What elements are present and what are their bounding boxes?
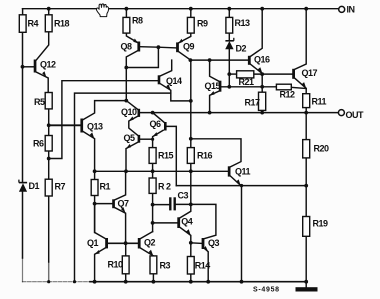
svg-text:D1: D1 — [29, 181, 40, 191]
svg-text:Q10: Q10 — [121, 107, 137, 117]
wire R21 left lead — [229, 73, 236, 75]
wire Q3 emitter to rail — [204, 248, 208, 281]
svg-text:IN: IN — [347, 4, 355, 14]
junction Q5 base / Q6 emitter — [151, 138, 154, 141]
capacitor C3 — [170, 197, 174, 210]
resistor R16 — [187, 148, 194, 164]
transistor Q14 — [158, 75, 161, 84]
junction Q11 collector wire at R16 top — [189, 137, 193, 141]
wire R14 bottom to rail — [190, 274, 192, 282]
junction Q6 branch on output bus — [151, 111, 155, 115]
resistor R10 — [122, 256, 129, 274]
junction R9 top at supply rail — [189, 7, 193, 11]
resistor R14 — [187, 257, 194, 275]
wire Q4 emitter down to Q3 base node — [180, 228, 191, 243]
wire Q16 collector riser to top rail — [251, 9, 263, 57]
svg-text:Q17: Q17 — [302, 68, 318, 78]
transistor Q16 — [248, 56, 251, 65]
resistor R4 — [19, 15, 26, 33]
svg-text:Q11: Q11 — [235, 167, 251, 177]
wire Q6 emitter down to R15, Q5 base tap — [153, 130, 164, 147]
svg-text:R3: R3 — [160, 261, 171, 271]
wire R21 right to Q17 base — [254, 73, 292, 75]
wire R8 top at rail / R8 bottom to Q8 emitter — [126, 33, 137, 42]
junction Q16 emitter / R21 right / Q17 base — [260, 72, 264, 76]
svg-text:C3: C3 — [178, 191, 189, 201]
svg-text:R6: R6 — [33, 139, 44, 149]
junction R6/R7 node — [47, 157, 51, 161]
wire R9 top lead — [190, 9, 192, 18]
svg-text:OUT: OUT — [346, 110, 365, 120]
resistor R19 — [303, 217, 310, 237]
wire R2 bottom to C3 node, down to Q2 collector — [152, 193, 154, 231]
junction R16 bottom on Q11 base wire — [189, 169, 193, 173]
svg-text:R8: R8 — [132, 16, 143, 26]
resistor R20 — [303, 140, 310, 158]
wire R10 bottom to rail — [125, 274, 127, 282]
wire OUT bus y=112.6 from Q10 base to OUT — [140, 112, 338, 114]
wire Q8 base loop down and left — [140, 47, 176, 48]
resistor R6 — [45, 136, 52, 152]
wire Q10 collector diag — [126, 101, 137, 110]
junction Q11 emitter node — [240, 184, 243, 187]
wire R8 top lead — [125, 9, 127, 18]
wire y=185.6 bus to R20/R19 node — [176, 185, 306, 187]
svg-text:R19: R19 — [313, 219, 329, 229]
junction Q5 emitter / Q7 collector — [124, 169, 128, 173]
wire R1 top/bottom leads — [94, 171, 96, 179]
transistor Q7 — [112, 199, 115, 208]
wire R6 bottom to R7 top — [48, 151, 50, 179]
wire Q11 emitter node down to ground rail — [241, 186, 243, 282]
transistor Q17 — [292, 69, 295, 79]
wire Q12 base from x=22.5 — [23, 66, 34, 68]
junction Q8 collector loop — [124, 66, 128, 70]
wire y185 node down to R19 top — [305, 186, 307, 217]
svg-text:Q2: Q2 — [144, 238, 156, 248]
wire Q7 collector riser — [115, 171, 126, 200]
wire R18 top lead — [48, 9, 50, 15]
svg-text:Q16: Q16 — [254, 55, 270, 65]
node OUT terminal — [338, 110, 344, 116]
resistor R9 — [187, 17, 194, 33]
wire Q12 emitter to R5 top — [36, 72, 48, 92]
wire Q10/Q6 base diag — [153, 113, 164, 123]
junction Q11 emitter leg at ground rail — [240, 280, 244, 284]
svg-text:R16: R16 — [197, 151, 213, 161]
transistor Q5 — [138, 135, 141, 143]
wire left column x=22.5: R4 bottom to D1 to ground rail — [22, 32, 24, 182]
wire Q15 emitter down to OUT bus — [210, 91, 219, 112]
wire Q14 collector riser to y60 bus — [160, 60, 171, 76]
wire Q14 emitter jog down to R16 column — [160, 84, 191, 101]
wire Q10 emitter to Q5 collector — [129, 116, 138, 135]
svg-text:Q7: Q7 — [118, 199, 130, 209]
wire Q13 emitter down to R1 node — [83, 132, 95, 172]
junction Q15 emitter on output bus — [208, 111, 212, 115]
wire Q13 collector riser — [83, 101, 126, 120]
wire R12 right lead — [291, 87, 306, 88]
junction Q15 collector on y60 bus — [208, 58, 212, 62]
svg-text:R5: R5 — [34, 97, 45, 107]
junction R13 top at supply rail — [227, 7, 231, 11]
resistor R12 — [276, 84, 291, 90]
svg-text:Q4: Q4 — [181, 217, 193, 227]
wire R14 top lead — [190, 243, 192, 257]
svg-text:Q9: Q9 — [183, 42, 195, 52]
wire Q15 base bus y=86.8 to R12 left — [221, 86, 276, 88]
junction Q9 collector on y60 bus — [189, 58, 193, 62]
transistor Q11 — [228, 166, 231, 176]
wire Q1 collector riser — [95, 204, 106, 239]
transistor Q10 — [138, 109, 141, 117]
wire Q3 base — [191, 242, 202, 245]
svg-text:R14: R14 — [195, 261, 211, 271]
svg-text:R13: R13 — [235, 18, 251, 28]
svg-text:R10: R10 — [108, 260, 124, 270]
transistor Q2 — [138, 238, 141, 249]
wire rail to IN — [337, 112, 339, 114]
junction Q7 base node — [93, 202, 97, 206]
junction C3 right / Q4 collector node — [189, 203, 193, 207]
junction Q1 emitter at ground rail — [93, 280, 97, 284]
junction Q4 base tap — [151, 221, 155, 225]
wire x=74.5 riser: ground rail up, right to Q14 emitter jog — [75, 93, 171, 282]
svg-text:Q5: Q5 — [124, 133, 136, 143]
wire D2 anode down to R21 node and Q15 base — [228, 49, 230, 87]
wire R19 bottom to rail end — [305, 236, 307, 287]
junction R14 at ground rail — [189, 280, 193, 284]
junction Q12 base node — [21, 65, 25, 69]
wire C3 left lead — [153, 204, 170, 206]
junction Q14 emitter wire on R16 column — [189, 99, 193, 103]
svg-text:R20: R20 — [314, 144, 330, 154]
wire R3 bottom to rail — [152, 274, 154, 282]
resistor R7 — [45, 179, 52, 196]
wire Q11 emitter to y185 bus — [231, 176, 241, 186]
resistor R2 — [149, 178, 156, 193]
wire Q7 base stub — [95, 203, 113, 205]
transistor Q8 — [137, 42, 140, 52]
resistor R11 — [303, 94, 310, 108]
junction R17 top on Q15 base bus — [260, 85, 264, 89]
junction R8 top at supply rail — [125, 7, 129, 11]
svg-text:D2: D2 — [236, 44, 247, 54]
wire R18 bottom lead to Q12 collector — [36, 32, 48, 60]
junction R7 at ground rail — [47, 280, 50, 283]
svg-text:R 2: R 2 — [158, 182, 171, 192]
junction Q3 emitter at ground rail — [206, 280, 210, 284]
resistor R1 — [91, 180, 98, 196]
resistor R17 — [259, 92, 266, 110]
wire top supply rail — [23, 8, 339, 10]
wire node down to R17 top — [261, 74, 263, 92]
svg-text:R17: R17 — [245, 98, 261, 108]
junction D2 line on Q15 base bus — [227, 85, 231, 89]
svg-text:Q6: Q6 — [150, 119, 162, 129]
transistor Q3 — [202, 238, 205, 249]
svg-text:Q15: Q15 — [205, 81, 221, 91]
svg-text:R12: R12 — [280, 90, 296, 100]
wire Q9/R16 column: y60 node down to R16 top — [190, 60, 192, 148]
junction R15 bottom / R2 top — [151, 169, 155, 173]
wire y=60 bus: Q9 collector to Q16 base — [190, 59, 248, 61]
junction R1 top / Q13 emitter — [93, 169, 97, 173]
resistor R15 — [149, 148, 156, 164]
svg-text:Q14: Q14 — [166, 76, 182, 86]
junction Q7 emitter on Q1/Q2 base tie — [124, 241, 128, 245]
junction R2 bottom / C3 left — [151, 203, 155, 207]
junction ground rail end — [304, 280, 308, 284]
wire R15 bottom to y171 node — [152, 163, 154, 178]
svg-text:Q1: Q1 — [87, 238, 99, 248]
wire Q1 emitter to rail — [95, 248, 106, 282]
wire Q1 Q2 base bus — [108, 242, 138, 244]
diode D1 — [19, 180, 27, 192]
junction R18 top at supply rail — [47, 7, 51, 11]
svg-text:R21: R21 — [239, 77, 255, 87]
resistor R3 — [150, 256, 157, 274]
wire Q6 base right and down to compensation bus — [166, 126, 176, 185]
wire Q7 emitter down to base bus of Q1/Q2 — [115, 208, 126, 244]
junction Q4 emitter / Q3 base / R14 top — [189, 241, 193, 245]
svg-text:R4: R4 — [28, 19, 39, 29]
junction Q8/Q9 base tie — [157, 45, 161, 49]
svg-text:Q8: Q8 — [121, 42, 133, 52]
resistor R18 — [45, 15, 52, 32]
resistor R13 — [226, 17, 233, 33]
transistor Q1 — [105, 238, 108, 248]
wire Q13 base from R5/R6 node — [49, 124, 81, 126]
wire Q8 collector down to node — [126, 51, 137, 101]
junction R10 at ground rail — [124, 280, 128, 284]
wire Q16 emitter to node — [251, 64, 263, 73]
junction R3 at ground rail — [152, 280, 156, 284]
svg-text:Q3: Q3 — [208, 238, 220, 248]
wire Q4 collector — [180, 204, 191, 217]
cursor hand icon — [96, 4, 108, 17]
svg-text:R7: R7 — [55, 182, 66, 192]
transistor Q4 — [177, 217, 180, 228]
wire C3 right lead to node — [176, 203, 191, 205]
junction R17 bottom on output bus — [260, 111, 264, 115]
wire Q5 emitter down to y171 node — [126, 142, 138, 171]
wire R20 bottom to y185 node — [305, 158, 307, 186]
junction Q17 collector at supply rail — [304, 7, 308, 11]
svg-text:R18: R18 — [54, 19, 70, 29]
transistor Q6 — [164, 122, 167, 131]
diode D2 (zener) — [225, 38, 234, 49]
wire R13 bottom to D2 — [228, 33, 230, 40]
wire Q2 emitter to R3 top — [141, 248, 154, 256]
transistor Q9 — [176, 42, 179, 52]
wire Q2 collector riser — [141, 232, 153, 239]
wire Q15 collector riser to y60 bus — [210, 60, 219, 81]
transistor Q15 — [219, 81, 222, 92]
wire bottom ground rail — [90, 281, 306, 283]
wire R17 bottom to OUT bus — [261, 110, 263, 112]
resistor R21 — [237, 71, 254, 78]
wire Q17 collector riser to top rail — [295, 9, 306, 69]
node IN terminal — [339, 6, 345, 12]
wire base bus down to R10 top — [125, 243, 127, 256]
junction R11 bottom on output bus — [304, 111, 308, 115]
wire R9 bottom to Q9 emitter — [179, 33, 191, 43]
svg-text:R1: R1 — [100, 182, 111, 192]
junction R5/R6/Q13 base node — [47, 123, 51, 127]
junction R20 bottom / R19 top node — [304, 184, 308, 188]
wire R13 top lead — [228, 9, 230, 18]
junction left return wire at ground rail — [73, 280, 76, 283]
svg-text:R9: R9 — [197, 19, 208, 29]
wire OUT bus down to R20 — [305, 113, 307, 140]
wire Q11 collector loop to R16 top node — [191, 139, 241, 167]
wire mid horizontal y=171.3 R1 to Q11 base — [95, 170, 228, 172]
svg-text:Q12: Q12 — [40, 60, 56, 70]
junction D2 anode / R21 left — [227, 72, 231, 76]
wire R16 bottom to y171 node to C3 node — [190, 163, 192, 204]
wire R5 bottom to R6 top — [48, 109, 50, 136]
svg-text:S-4958: S-4958 — [253, 287, 280, 294]
resistor R5 — [45, 93, 52, 109]
wire Q17 emitter to R11 top — [295, 78, 306, 93]
junction Q8/Q13/Q10 collector node — [124, 99, 128, 103]
svg-text:R11: R11 — [312, 97, 327, 107]
transistor Q13 — [80, 119, 83, 133]
wire R6 bottom node to x=61.9 riser up to Q14 base — [49, 81, 158, 159]
wire R7 bottom to ground rail — [48, 196, 50, 262]
svg-text:R15: R15 — [158, 151, 174, 161]
junction Q16 collector at supply rail — [260, 7, 264, 11]
ground — [296, 287, 318, 291]
transistor Q12 — [34, 60, 37, 73]
wire R11 bottom to OUT bus — [305, 108, 307, 113]
wire node to Q3 collector riser — [191, 204, 216, 238]
wire Q9 collector to y60 node — [179, 52, 191, 60]
wire Q4 base tap — [153, 222, 178, 224]
resistor R8 — [123, 17, 130, 33]
wire R4 top lead — [22, 9, 24, 15]
svg-text:Q13: Q13 — [87, 122, 103, 132]
